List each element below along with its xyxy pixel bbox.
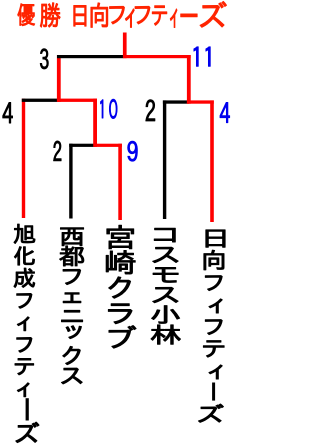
- wire: champion stem (red): [123, 33, 127, 59]
- team name: Saito Phoenix (vertical): [61, 228, 84, 246]
- score 4: [3, 103, 13, 124]
- wire: final horizontal left (black): [57, 55, 123, 58]
- score 3: [40, 49, 48, 69]
- wire: match1 horizontal left (black): [69, 144, 95, 147]
- wire: team line Hyuga Fifties (red): [210, 100, 214, 222]
- score 2: [146, 100, 155, 121]
- wire: final horizontal right (red): [123, 55, 190, 58]
- score 10: [100, 100, 103, 118]
- team name: Hyuga Fifties (vertical): [206, 230, 225, 247]
- wire: match2 winner stem (red): [187, 55, 191, 104]
- wire: match2 horizontal right (red): [187, 100, 214, 103]
- wire: team line Asahikasei (red): [22, 99, 25, 218]
- wire: team line Saito Phoenix (black): [69, 144, 72, 219]
- team name: Miyazaki Club (vertical): [107, 225, 134, 249]
- score 4: [220, 102, 230, 122]
- team name: Asahikasei Fifties (vertical): [14, 224, 35, 243]
- wire: team line Cosmos Kobayashi (black): [163, 100, 166, 219]
- wire: match2 horizontal left (black): [163, 100, 189, 103]
- score 2: [53, 141, 61, 161]
- score 9: [128, 141, 138, 161]
- title: champion 優勝 日向フィフティーズ: [18, 4, 35, 26]
- wire: semifinal-left winner stem (red): [57, 55, 61, 102]
- wire: team line Miyazaki Club (red): [118, 144, 122, 220]
- team name: Cosmos Kobayashi (vertical): [154, 228, 175, 242]
- wire: semifinal-left horizontal right (red): [57, 99, 97, 102]
- wire: semifinal-left horizontal left (black): [22, 99, 59, 102]
- wire: match1 winner stem (red): [93, 99, 97, 147]
- wire: match1 horizontal right (red): [95, 144, 122, 147]
- score 11: [194, 47, 198, 66]
